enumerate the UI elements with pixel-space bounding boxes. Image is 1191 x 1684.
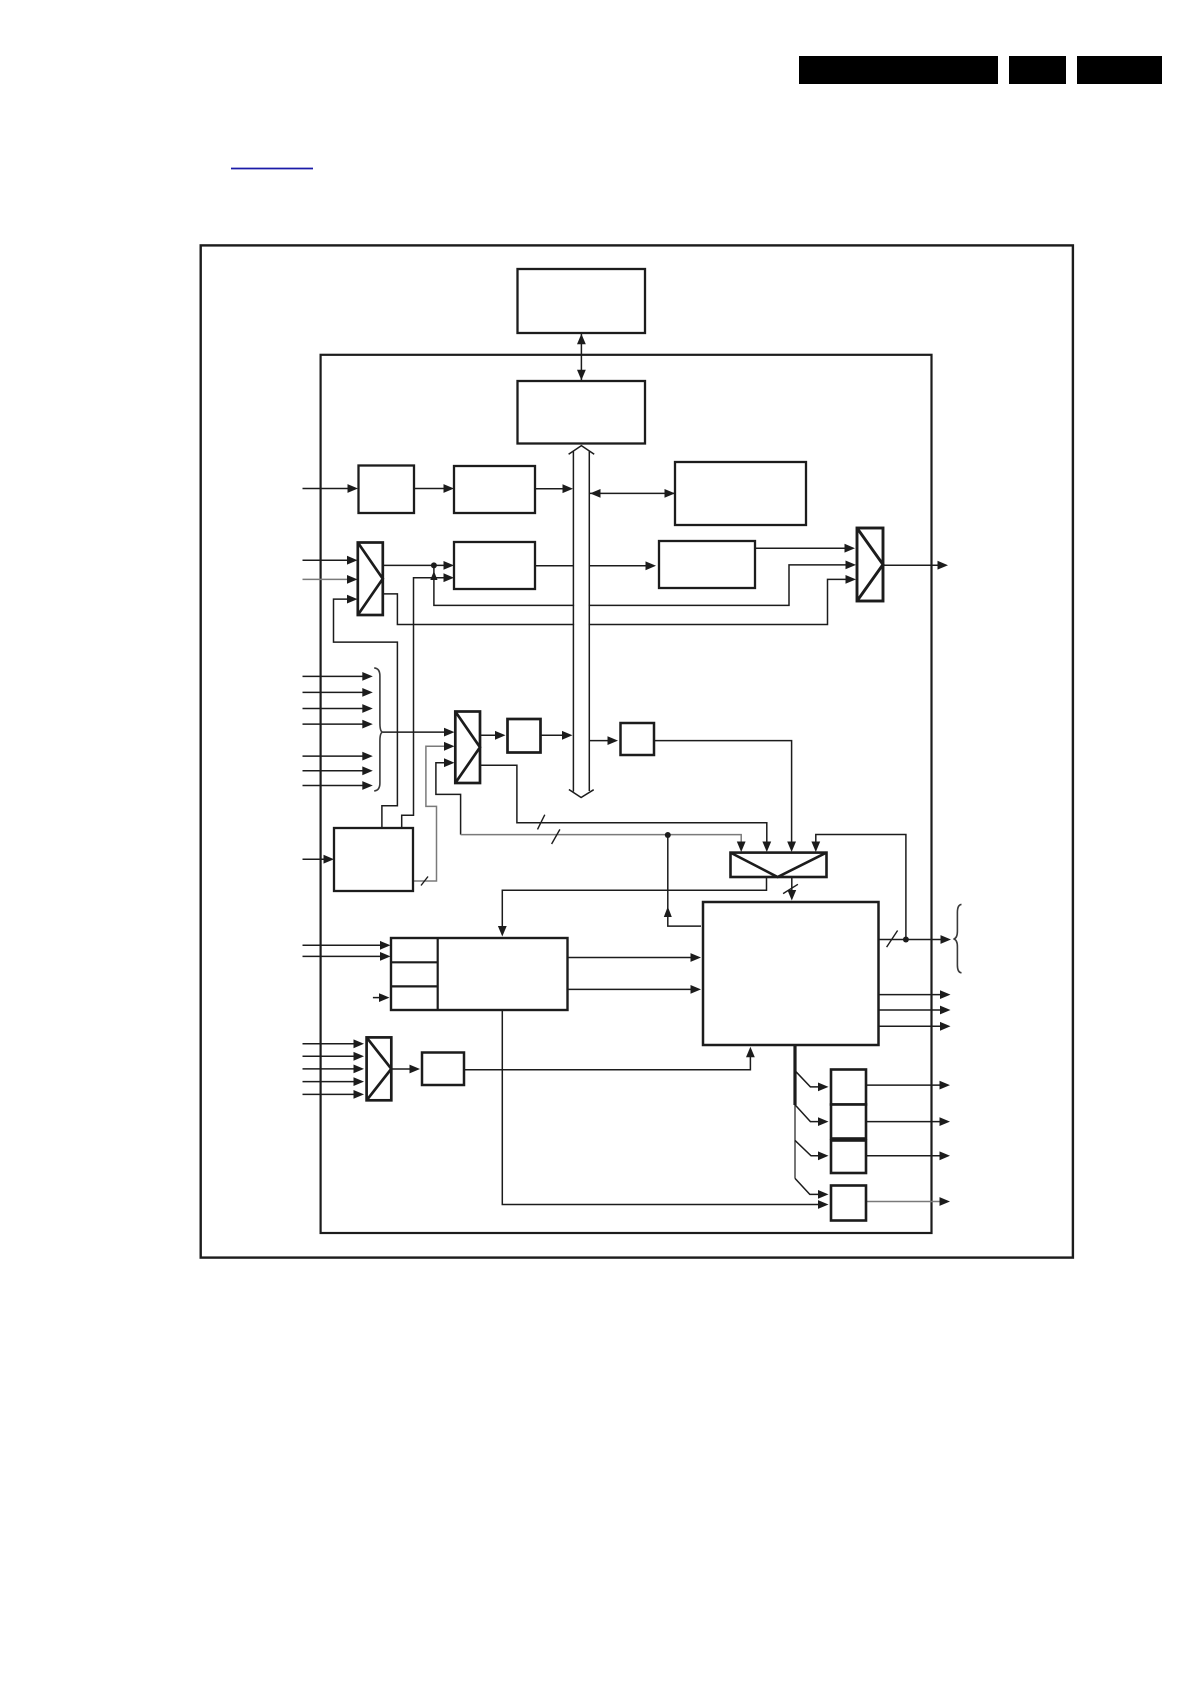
wire branch to BB [795,1105,820,1122]
stack feed line lower [794,1105,796,1178]
redaction bar 2 [1009,56,1066,84]
wire input 1 to B6 [303,941,391,950]
wire B4 out to data bus [535,565,573,567]
wire input 1 to brace L [303,672,373,681]
wire mux M1 out to B4 input 1 [383,561,454,570]
wire input 5 to mux M3 [303,1090,365,1099]
data bus shaft [573,452,589,792]
wire input 3 to mux M3 [303,1065,365,1074]
arrowhead into BA [818,1083,829,1092]
wire feedback B5 top to B4 input 2 [402,578,446,828]
wire feedback J1 to mux M4 input 2 [434,565,848,606]
wire B6 out 2 to big block [568,985,702,994]
wire big block output 2 [879,990,951,999]
arrowhead into BD [818,1190,829,1199]
bus width slash on net N822 [538,815,545,830]
inner frame [321,355,932,1233]
wire branch to BC [795,1140,820,1155]
junction node J2 [665,832,671,838]
big block B9 (control core) [703,902,879,1045]
block B6 (with input column) [391,938,568,1010]
brace left (input group) [374,668,382,791]
wire B8 to hmux input 3 [654,741,792,845]
outer frame [201,245,1073,1257]
wire input to block B3A [303,484,359,493]
wire input 2 to brace L [303,688,373,697]
junction node J3 [903,937,909,943]
wire branch to BD [795,1178,820,1194]
wire B3B to data bus [535,484,573,493]
wire input 2 to B6 [303,952,391,961]
arrowhead up into J1 [430,571,437,580]
arrowhead into hmux input 2 [762,842,771,853]
wire big block output 3 [879,1006,951,1015]
arrowhead into BD input 2 [818,1200,829,1209]
wire feedback B5 top to mux M1 path [334,599,398,828]
wire input 1 to mux M1 [303,556,358,565]
arrowhead into B6 top [498,926,507,937]
block B5B [659,541,755,588]
mux M2 [455,712,480,784]
wire bus to B8 [589,736,618,745]
register BC [831,1141,866,1174]
wire B6 out 1 to big block [568,953,702,962]
brace right (output group) [954,904,962,972]
wire B5 out to mux M2 input 2 [413,746,447,881]
wire big block output 4 [879,1022,951,1031]
wire bus to B3C bidirectional [590,489,675,498]
block B7 [422,1053,464,1086]
wire input 6 to brace L [303,766,373,775]
redaction bar 3 [1077,56,1162,84]
wire hmux out left to B6 top [502,876,766,929]
wire hmux out to big block [791,876,793,893]
arrowhead into hmux input 4 [811,842,820,853]
wire mux M1 out 2 to mux M4 input 3 [383,579,848,624]
wire feedback J3 to hmux input 4 [816,835,906,940]
wire input 1 to mux M3 [303,1039,365,1048]
wire mux M3 out to B7 [391,1065,420,1074]
wire BD output [866,1197,950,1206]
wire input 5 to brace L [303,752,373,761]
mux M3 [367,1037,392,1100]
mux M4 [857,528,883,601]
arrowhead into BB [818,1117,829,1126]
wire bus to B5B [589,561,656,570]
bus width slash on net N835 [552,829,560,844]
arrowhead into mux M4 input 3 [846,575,857,584]
wire net N835 to mux M2 input 3 [436,763,461,835]
wire B3A to B3B [414,484,454,493]
wire input 2 to mux M3 [303,1052,365,1061]
bus width slash on hmux output [783,884,798,893]
block B8 [621,723,655,755]
register BA [831,1070,866,1105]
arrowhead into mux M1 input 3 [347,595,358,604]
wire BC output [866,1151,950,1160]
wire J2 down to big block [668,835,701,926]
wire B1 to B2 bidirectional [577,334,586,380]
block B8A [508,719,541,753]
wire branch to BA [795,1071,820,1087]
arrowhead into hmux input 1 [737,842,746,853]
arrowhead into mux M4 input 2 [846,561,857,570]
arrowhead up into big block bottom [746,1047,755,1058]
wire B5B to mux M4 input 1 [755,544,855,553]
arrowhead up on J2 branch [664,907,672,918]
wire B8A to data bus [541,731,573,740]
wire input 2 to mux M1 [303,575,358,584]
redaction bar 1 [799,56,998,84]
wire input 3 to brace L [303,704,373,713]
wire big block out to brace R [879,939,944,941]
wire brace to mux M2 input 1 [383,728,455,737]
wire mux M4 output [883,561,948,570]
arrowhead into brace R [941,935,952,944]
arrowhead into mux M2 input 2 [444,742,455,751]
bus width slash on B5 output [421,877,428,886]
wire BB output [866,1117,950,1126]
data bus top arrowhead [569,446,595,455]
hyperlink underline [231,168,313,170]
arrowhead into hmux input 3 [787,842,796,853]
wire input 7 to brace L [303,781,373,790]
block B1 (top external) [518,269,646,333]
arrowhead into big block top [787,890,796,901]
wire net N835 gray line [461,835,742,845]
arrowhead into B4 input 2 [444,573,455,582]
block B3A [359,466,415,514]
wire B7 to big block bottom [464,1054,750,1070]
wire input to B5 [303,855,335,864]
wire input 4 to brace L [303,720,373,729]
block B5 [334,828,413,891]
arrowhead into BC [818,1151,829,1160]
register BB [831,1105,866,1139]
block B2 (interface) [518,381,646,444]
hmux M5 (selector) [731,853,827,877]
register BD [831,1186,866,1221]
wire short input 3 to B6 [373,993,390,1002]
block B3B [454,466,535,513]
wire mux M2 out 2 to hmux input 2 [480,765,767,845]
mux M1 [358,543,383,616]
block B4 [454,542,535,589]
arrowhead into mux M2 input 3 [444,758,455,767]
wire input 4 to mux M3 [303,1077,365,1086]
data bus bottom arrowhead [569,790,594,798]
junction node J1 [431,562,437,568]
block B3C [675,462,806,525]
wire mux M2 out to B8A [480,731,506,740]
wire BA output [866,1081,950,1090]
thick stack feed line upper [793,1045,796,1105]
wire B6 bottom to BD input [502,1010,820,1205]
data bus white core [574,450,589,790]
bus width slash on big block output [887,931,898,948]
